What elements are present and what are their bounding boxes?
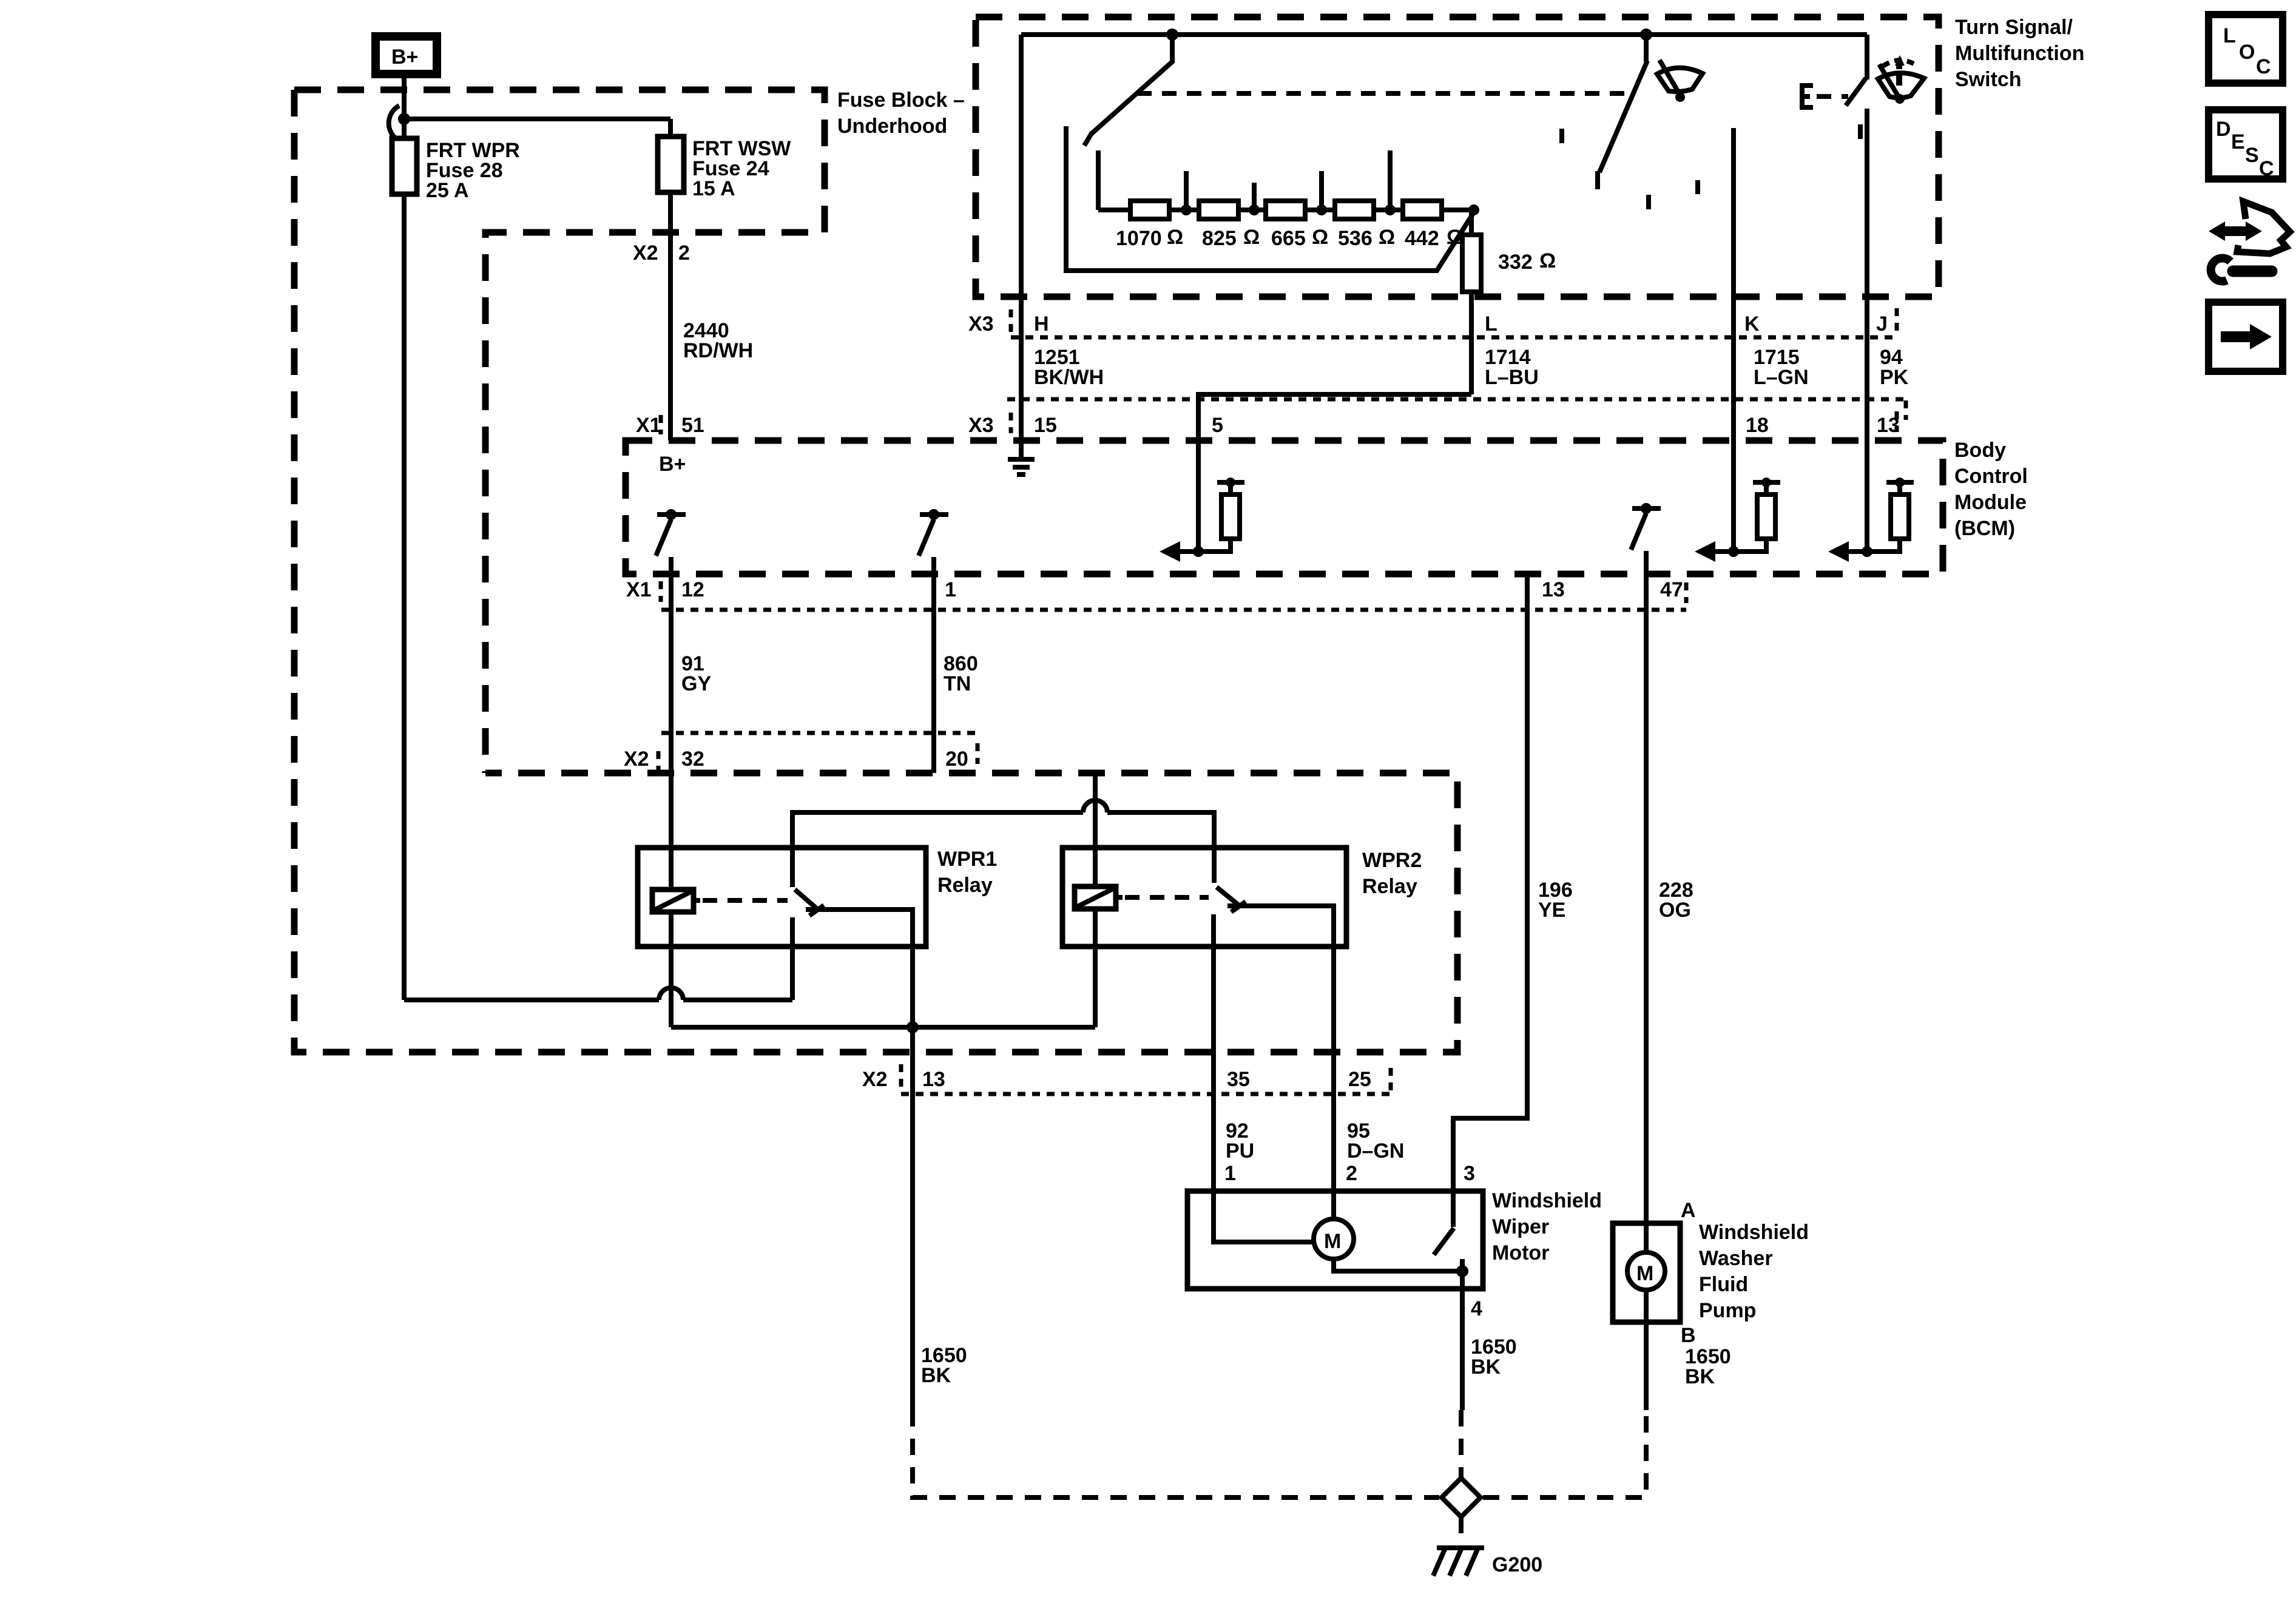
svg-text:H: H — [1034, 312, 1049, 336]
relay WPR1 coil — [652, 890, 700, 912]
svg-text:25 A: 25 A — [426, 179, 469, 202]
svg-text:Wiper: Wiper — [1492, 1215, 1549, 1238]
svg-text:Windshield: Windshield — [1492, 1189, 1602, 1212]
resistor 665 ohm — [1266, 201, 1328, 250]
svg-text:C: C — [2256, 55, 2271, 78]
svg-text:25: 25 — [1348, 1068, 1371, 1091]
connector X2 row (relay section top) — [658, 733, 982, 771]
svg-text:B+: B+ — [659, 453, 686, 476]
svg-text:PK: PK — [1880, 366, 1909, 389]
svg-text:Body: Body — [1954, 439, 2006, 462]
svg-text:A: A — [1681, 1199, 1696, 1222]
svg-text:BK: BK — [1685, 1365, 1715, 1388]
fuse FRT WPR Fuse 28 25A — [392, 138, 520, 202]
svg-text:20: 20 — [945, 748, 968, 771]
wire: X2-20 to WPR2 coil — [1093, 773, 1098, 1027]
wire: B+ down left side to relay feed — [402, 74, 407, 1000]
svg-text:1: 1 — [945, 578, 956, 601]
splice node on B+ wire — [389, 106, 410, 138]
wire: 1714 L-BU jog to BCM pin 5 — [1198, 394, 1471, 441]
washer spray icon — [1878, 55, 1924, 104]
windshield wiper motor box — [1187, 1191, 1483, 1289]
svg-text:2: 2 — [1346, 1162, 1357, 1185]
wire: H contact vertical / 1251 output — [1019, 35, 1024, 441]
svg-text:Windshield: Windshield — [1699, 1221, 1809, 1244]
svg-text:Fuse Block –: Fuse Block – — [837, 89, 965, 112]
wire: relay feed B+ line with hop — [404, 988, 792, 1000]
svg-text:Ω: Ω — [1539, 249, 1556, 272]
wire: motor pin 4 / 1650 BK — [1460, 1271, 1465, 1410]
svg-text:1070: 1070 — [1116, 227, 1162, 250]
resistor 1070 ohm — [1116, 201, 1183, 250]
wire: relay coil ground bus — [671, 1025, 1095, 1030]
svg-text:1: 1 — [1224, 1162, 1236, 1185]
svg-text:15: 15 — [1034, 414, 1057, 437]
BCM input driver pin 13 — [1828, 441, 1914, 562]
relay WPR2 NO contact / 92 PU to motor pin 1 — [1211, 914, 1216, 1191]
legend LOC box — [2209, 15, 2283, 83]
legend service icon — [2209, 201, 2290, 281]
svg-text:3: 3 — [1464, 1162, 1475, 1185]
svg-text:(BCM): (BCM) — [1954, 517, 2015, 540]
svg-text:B: B — [1681, 1324, 1696, 1347]
svg-text:13: 13 — [922, 1068, 945, 1091]
ground G200 — [1433, 1548, 1484, 1576]
mechanical link dashes — [1137, 91, 1632, 96]
svg-text:Module: Module — [1954, 491, 2027, 514]
windshield washer fluid pump — [1613, 1223, 1680, 1322]
svg-text:BK/WH: BK/WH — [1034, 366, 1104, 389]
svg-text:Motor: Motor — [1492, 1241, 1549, 1264]
switch position ticks — [1562, 124, 1860, 209]
svg-text:S: S — [2245, 144, 2259, 167]
svg-text:B+: B+ — [391, 46, 418, 69]
ground inside BCM (pin 15) — [1008, 441, 1035, 474]
svg-text:M: M — [1636, 1262, 1653, 1285]
relay WPR1 common output — [806, 910, 913, 1027]
svg-text:E: E — [2231, 130, 2245, 154]
node: wiper switch pivot — [1166, 29, 1178, 41]
svg-text:X1: X1 — [636, 414, 661, 437]
resistor 536 ohm — [1335, 201, 1395, 250]
svg-text:Fluid: Fluid — [1699, 1273, 1748, 1296]
relay WPR2 coil — [1075, 886, 1123, 909]
wire: 2440 RD/WH fuse 24 to BCM X1-51 — [668, 192, 673, 441]
wiper motor M — [1214, 1191, 1468, 1277]
fuse block underhood dashed outline — [294, 90, 1457, 1052]
turn signal/multifunction switch dashed box — [976, 17, 1939, 297]
svg-text:X2: X2 — [624, 748, 649, 771]
BCM switch pin 47 — [1631, 503, 1661, 1223]
svg-text:L–BU: L–BU — [1485, 366, 1539, 389]
svg-text:12: 12 — [681, 578, 704, 601]
washer switch E link — [1802, 86, 1813, 107]
svg-text:825: 825 — [1202, 227, 1237, 250]
resistor 825 ohm — [1199, 201, 1260, 250]
svg-text:35: 35 — [1227, 1068, 1250, 1091]
svg-text:C: C — [2259, 157, 2274, 180]
BCM input driver pin 5 — [1160, 441, 1244, 562]
body control module dashed box — [626, 441, 1943, 574]
resistor ladder left return — [1066, 126, 1474, 271]
svg-text:J: J — [1876, 312, 1888, 336]
ladder contact stubs — [1098, 150, 1390, 210]
svg-text:Ω: Ω — [1312, 226, 1328, 249]
resistor 442 ohm — [1403, 201, 1463, 250]
wire: switch internal feed rail — [1021, 32, 1867, 37]
svg-text:L: L — [2223, 24, 2236, 47]
svg-text:15 A: 15 A — [692, 177, 735, 200]
fuse FRT WSW Fuse 24 15A — [658, 119, 791, 200]
svg-text:G200: G200 — [1492, 1553, 1542, 1576]
svg-text:Relay: Relay — [937, 874, 993, 897]
dashed ground bus — [913, 1410, 1646, 1497]
svg-text:13: 13 — [1542, 578, 1565, 601]
splice diamond — [1442, 1478, 1481, 1517]
wiper speed switch blade (K side) — [1598, 35, 1647, 189]
svg-text:47: 47 — [1660, 578, 1683, 601]
svg-text:Ω: Ω — [1379, 226, 1395, 249]
svg-text:WPR1: WPR1 — [937, 848, 997, 871]
svg-text:M: M — [1324, 1230, 1341, 1253]
svg-text:O: O — [2239, 41, 2255, 64]
svg-text:Ω: Ω — [1243, 226, 1260, 249]
wire: relay control rail WPR1 to WPR2 with hop — [792, 800, 1214, 883]
svg-text:PU: PU — [1226, 1139, 1254, 1163]
wire: pump B / 1650 BK — [1644, 1322, 1649, 1410]
connector X3 row (BCM side) — [1007, 399, 1906, 420]
wire: diamond to G200 — [1459, 1517, 1464, 1546]
svg-text:TN: TN — [944, 672, 971, 695]
svg-text:X1: X1 — [626, 578, 652, 601]
svg-text:2: 2 — [678, 241, 690, 265]
svg-text:X3: X3 — [968, 414, 994, 437]
wire: K contact / 1715 output — [1731, 128, 1736, 441]
svg-text:Switch: Switch — [1955, 68, 2022, 91]
svg-text:332: 332 — [1498, 251, 1533, 274]
svg-text:18: 18 — [1746, 414, 1769, 437]
svg-text:Relay: Relay — [1362, 875, 1417, 898]
relay WPR2 common output / 95 D-GN to motor pin 2 — [1227, 906, 1334, 1191]
svg-text:X2: X2 — [633, 241, 658, 265]
wire: 91 GY through coil (passes box) — [669, 773, 674, 1027]
svg-text:Washer: Washer — [1699, 1247, 1773, 1270]
svg-text:536: 536 — [1338, 227, 1373, 250]
svg-text:Ω: Ω — [1167, 226, 1183, 249]
relay WPR1 box — [638, 848, 926, 947]
svg-text:GY: GY — [681, 672, 711, 695]
node: wash switch pivot — [1640, 29, 1652, 41]
BCM switch pin 1 — [919, 509, 948, 773]
svg-text:665: 665 — [1271, 227, 1306, 250]
svg-text:L: L — [1485, 312, 1497, 336]
svg-text:WPR2: WPR2 — [1362, 849, 1422, 872]
relay WPR1 armature — [792, 848, 824, 916]
svg-text:X3: X3 — [968, 312, 994, 336]
B+ battery feed box — [376, 36, 437, 74]
svg-text:X2: X2 — [862, 1068, 888, 1091]
svg-text:Control: Control — [1954, 465, 2028, 488]
wiper motor park switch — [1434, 1191, 1454, 1255]
node: coil/contact ground junction — [907, 1021, 919, 1033]
relay WPR2 coil-contact dashed link — [1125, 895, 1209, 900]
svg-text:4: 4 — [1471, 1297, 1482, 1320]
svg-text:32: 32 — [681, 748, 704, 771]
wiper icon — [1657, 60, 1703, 102]
legend DESC box — [2209, 110, 2283, 180]
svg-text:442: 442 — [1405, 227, 1439, 250]
svg-text:5: 5 — [1212, 414, 1223, 437]
relay WPR1 coil-contact dashed link — [703, 898, 788, 903]
svg-text:Turn Signal/: Turn Signal/ — [1955, 16, 2073, 39]
svg-text:OG: OG — [1659, 899, 1691, 922]
svg-text:YE: YE — [1538, 899, 1565, 922]
wire: J output / 94 PK — [1865, 35, 1869, 441]
svg-text:K: K — [1744, 312, 1760, 336]
svg-text:Underhood: Underhood — [837, 115, 947, 138]
legend arrow box — [2209, 302, 2283, 371]
resistor ladder bus — [1098, 208, 1474, 212]
wire: 196 YE pin 13 to wiper motor — [1453, 574, 1527, 1191]
washer switch blade — [1846, 78, 1866, 106]
svg-text:51: 51 — [681, 414, 704, 437]
svg-text:BK: BK — [921, 1364, 951, 1387]
svg-text:RD/WH: RD/WH — [683, 339, 753, 362]
connector X1 row (BCM bottom) — [661, 581, 1686, 610]
BCM input driver pin 18 — [1695, 441, 1780, 562]
svg-text:BK: BK — [1471, 1355, 1501, 1379]
relay WPR2 armature — [1217, 887, 1246, 912]
BCM switch pin 12 — [656, 509, 686, 773]
svg-text:D–GN: D–GN — [1347, 1139, 1404, 1163]
relay WPR1 NO contact to B+ — [790, 917, 795, 1000]
svg-text:L–GN: L–GN — [1754, 366, 1809, 389]
svg-text:D: D — [2216, 118, 2231, 141]
resistor 332 ohm — [1462, 210, 1556, 394]
wiper mode switch blade — [1084, 35, 1173, 146]
wire: 1650 BK from junction down — [910, 1027, 915, 1410]
ladder junction nodes — [1181, 204, 1479, 215]
svg-text:Multifunction: Multifunction — [1955, 42, 2084, 65]
wire: splice to FRT WSW fuse — [404, 116, 670, 121]
svg-text:Pump: Pump — [1699, 1299, 1756, 1322]
relay WPR2 box — [1062, 848, 1346, 947]
